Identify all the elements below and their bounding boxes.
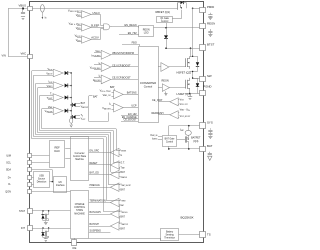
svg-text:VBATOVP: VBATOVP — [81, 106, 89, 109]
svg-text:BAT: BAT — [207, 144, 213, 148]
svg-text:BAT Gate: BAT Gate — [165, 138, 175, 141]
pin VAC — [28, 55, 33, 59]
svg-text:LSFET (Q3): LSFET (Q3) — [177, 92, 191, 96]
amp BATSNS — [112, 89, 124, 99]
wire VINDPM out — [111, 54, 138, 56]
transistor INT open-drain — [41, 228, 48, 242]
pin ILIM — [28, 154, 32, 158]
label BAT node — [110, 86, 115, 89]
amp VINDPM — [94, 50, 111, 59]
svg-text:Machine: Machine — [75, 159, 84, 161]
pin REGN — [200, 24, 206, 29]
label STAT — [19, 210, 25, 213]
wire BATLOWV — [89, 214, 111, 216]
comparator TERMINATION input labels — [120, 199, 126, 207]
comparator UVLO — [82, 11, 92, 18]
pin D- — [28, 183, 32, 187]
svg-text:REF: REF — [54, 146, 60, 150]
capacitor C_REGN — [208, 29, 212, 33]
wire TERMINATION input stubs — [119, 201, 120, 205]
battery symbol — [208, 156, 212, 160]
block USB Source Detection — [34, 172, 50, 188]
wire RESET input stubs — [119, 163, 120, 168]
wire BATOVP input stubs — [119, 224, 120, 229]
comparator UVLO input labels — [68, 10, 81, 18]
svg-text:VBUS: VBUS — [48, 68, 53, 71]
label OCP out — [112, 77, 131, 80]
label BATLOW out — [131, 105, 137, 108]
svg-text:EN_HIZ: EN_HIZ — [128, 32, 137, 35]
comparator fault 3 input labels — [47, 93, 53, 101]
label diode A nets — [81, 102, 89, 109]
svg-text:VSW: VSW — [180, 98, 185, 101]
label REGN — [207, 21, 215, 25]
label VBUS — [19, 4, 27, 8]
wire BAT sense routing — [89, 96, 109, 122]
comparator fault 4 input labels — [45, 106, 53, 114]
svg-text:VBUS: VBUS — [76, 39, 81, 42]
svg-text:IBAT: IBAT — [180, 129, 184, 132]
svg-text:BATLOWV: BATLOWV — [90, 211, 102, 214]
svg-text:Q1 Gate: Q1 Gate — [160, 17, 169, 20]
svg-text:IB: IB — [99, 62, 101, 65]
ground PGND internal — [188, 94, 192, 100]
svg-text:VHOT: VHOT — [81, 118, 86, 121]
svg-text:LDO: LDO — [144, 32, 149, 35]
svg-text:VBATOVP: VBATOVP — [45, 110, 53, 113]
svg-text:Thermistor: Thermistor — [164, 237, 175, 240]
label LSFET (Q3) — [177, 92, 191, 96]
wire EN stack labels — [122, 113, 137, 122]
wire FBO — [122, 44, 140, 46]
current source IBAT sense — [185, 126, 191, 137]
svg-text:Battery: Battery — [166, 230, 174, 233]
label D- — [8, 183, 11, 186]
wire UVLO out — [91, 14, 104, 25]
svg-text:Source: Source — [38, 178, 46, 181]
label CE — [72, 246, 77, 250]
pin TS — [200, 232, 206, 238]
wire fault 1 inputs — [32, 71, 53, 76]
svg-text:ACOV: ACOV — [91, 35, 99, 39]
svg-text:CE,OCP,BOOST: CE,OCP,BOOST — [112, 77, 131, 80]
label IBAT — [180, 129, 184, 132]
wire PGND — [185, 91, 201, 95]
wire SM to thermistor — [89, 238, 161, 241]
svg-text:ILIM: ILIM — [6, 155, 11, 158]
block REF DAC — [50, 141, 65, 168]
comparator EN_SRC input labels — [120, 149, 126, 157]
body diode Q2 — [190, 56, 199, 71]
svg-text:IINLIM_REG: IINLIM_REG — [92, 54, 102, 57]
svg-text:STATE: STATE — [76, 209, 83, 212]
wire EN_SRC input stubs — [119, 151, 120, 155]
comparator EN_SRC — [110, 148, 119, 156]
comparator fault 4 — [53, 107, 63, 115]
svg-text:IBATSC: IBATSC — [152, 137, 158, 140]
transistor RBFET Q1 — [178, 3, 183, 10]
comparator BATLOWV input labels — [120, 211, 128, 219]
pin SCL — [28, 161, 32, 165]
amp UCP — [94, 63, 111, 72]
label BATSNS out — [127, 91, 137, 94]
comparator BAT_GD — [110, 170, 119, 178]
svg-text:CHARGE: CHARGE — [75, 203, 85, 206]
svg-text:VBAT_SHORT: VBAT_SHORT — [120, 184, 131, 187]
comparator PRECHG — [110, 183, 119, 191]
svg-text:Control: Control — [144, 85, 153, 89]
comparator SLEEP input labels — [69, 23, 81, 31]
comparator BATLOWV — [110, 210, 119, 218]
label SCL — [6, 162, 11, 165]
transistor STAT open-drain — [41, 211, 48, 225]
diode OR 2 — [65, 84, 72, 88]
comparator BATOVP input labels — [120, 223, 128, 231]
junction dot VBUS decoupling — [22, 7, 24, 12]
wire BATLOWV input stubs — [119, 212, 120, 217]
wire vertical routing bundle — [32, 71, 42, 139]
svg-text:PMID: PMID — [207, 5, 214, 9]
svg-text:VACOV: VACOV — [46, 72, 52, 75]
label RESET — [90, 162, 98, 165]
svg-text:VSW_OCP: VSW_OCP — [180, 103, 188, 106]
label TS — [207, 232, 211, 236]
svg-text:REGN: REGN — [162, 79, 169, 82]
wire fault 2 inputs — [36, 84, 53, 88]
svg-text:BAT_GD: BAT_GD — [90, 171, 100, 174]
label VIN external — [2, 53, 6, 57]
diode OR extra A — [70, 103, 80, 107]
wire QON — [32, 191, 71, 193]
comparator ACOV input labels — [75, 35, 81, 43]
wire STAT — [32, 210, 70, 211]
wire EN_HIZ — [119, 34, 139, 36]
box Q1 gate control — [157, 17, 173, 24]
svg-text:CE_OCP: CE_OCP — [152, 99, 163, 102]
svg-text:TERMINATION: TERMINATION — [90, 199, 106, 202]
svg-text:DAC: DAC — [54, 149, 60, 153]
wire HS gate — [169, 48, 191, 66]
label PRECHG — [90, 184, 100, 187]
label IBUS — [45, 15, 47, 19]
label PMID — [207, 5, 214, 9]
wire REF DAC to CSM — [65, 149, 70, 159]
comparator RESET — [110, 161, 119, 169]
pin VBUS — [28, 7, 33, 11]
transistor LSFET Q3 — [186, 78, 190, 91]
pin BTST — [200, 45, 206, 51]
svg-text:BATOVP: BATOVP — [90, 223, 100, 226]
amp BATLOW — [112, 103, 124, 112]
diode OR 4 — [65, 109, 72, 113]
pin PMID — [200, 8, 206, 13]
label RBFET (Q1) — [156, 10, 171, 14]
body diode Q1 — [180, 1, 186, 8]
pin BAT — [200, 147, 206, 152]
svg-text:FBO: FBO — [132, 41, 137, 44]
label VAC — [21, 52, 26, 56]
svg-text:CONTROL: CONTROL — [74, 207, 86, 209]
comparator TERMINATION — [110, 198, 119, 206]
wire D- — [32, 184, 34, 186]
wire VBUS to RBFET — [32, 8, 177, 10]
capacitor C_VBUS — [21, 13, 25, 14]
label BAT_GD — [90, 171, 100, 174]
ground C_PMID — [208, 16, 212, 20]
comparator ACOV — [82, 36, 92, 43]
svg-text:/CE: /CE — [72, 246, 77, 250]
svg-text:VPH + VSLP: VPH + VSLP — [100, 90, 111, 94]
svg-text:VIN: VIN — [2, 53, 6, 57]
label ACOV — [91, 35, 99, 39]
comparator BATOVP — [110, 222, 119, 230]
pin PGND — [200, 91, 206, 96]
wire SLEEP out — [91, 27, 104, 29]
wire routing bundle horizontals — [32, 129, 120, 212]
wire SDA — [32, 170, 53, 182]
svg-text:SLEEP: SLEEP — [91, 23, 100, 27]
svg-text:CONVERTER: CONVERTER — [140, 81, 156, 85]
label CE_OCP — [152, 99, 163, 102]
svg-text:I2C: I2C — [59, 182, 63, 184]
svg-text:BTST: BTST — [207, 43, 215, 47]
pin QON — [28, 190, 32, 194]
svg-text:IB: IB — [120, 154, 122, 157]
wire OR bus — [71, 73, 73, 118]
wire EN stack — [121, 116, 138, 122]
svg-text:PRECHG: PRECHG — [90, 184, 100, 187]
svg-text:BAT: BAT — [110, 86, 115, 89]
diode OR extra B — [70, 115, 80, 119]
wire ACOV inputs — [77, 38, 82, 42]
svg-text:Control: Control — [166, 141, 174, 144]
amp OCP input labels — [93, 75, 101, 83]
wire PMID — [193, 8, 201, 10]
wire TS — [179, 234, 200, 236]
amp BATSNS input labels — [100, 90, 111, 98]
capacitor C_PMID — [208, 13, 212, 17]
comparator CE_OCP input labels — [178, 98, 188, 106]
svg-text:PGND: PGND — [203, 84, 211, 88]
label TERMINATION — [90, 199, 106, 202]
svg-text:VBAT - VPH: VBAT - VPH — [180, 108, 190, 112]
svg-text:STAT: STAT — [19, 210, 25, 213]
ground C_SYS — [208, 135, 212, 139]
svg-text:BAT: BAT — [93, 96, 98, 99]
pin INT — [28, 226, 33, 231]
svg-text:IBAT: IBAT — [120, 204, 124, 207]
diode OR 1 — [65, 71, 72, 75]
label EN_SRC — [90, 149, 100, 152]
svg-text:REGN: REGN — [207, 21, 215, 25]
wire Q2 drain bus — [192, 8, 193, 57]
wire SCL — [32, 162, 50, 164]
wire REGN to Q1 box — [166, 23, 168, 28]
svg-text:TS: TS — [207, 232, 211, 236]
current source IBUS — [41, 5, 45, 20]
label BAT — [207, 144, 213, 148]
label INT — [21, 227, 26, 230]
svg-text:RBFET (Q1): RBFET (Q1) — [156, 10, 171, 14]
pin STAT — [28, 209, 33, 214]
svg-text:BAT: BAT — [120, 189, 125, 192]
wire BTST — [165, 47, 200, 49]
svg-text:VBATGD: VBATGD — [120, 176, 128, 179]
label BTST — [207, 43, 215, 47]
transistor BATFET Q4 — [177, 136, 189, 149]
comparator fault 1 — [53, 69, 63, 77]
comparator fault 1 input labels — [46, 68, 52, 76]
svg-text:D-: D- — [8, 183, 11, 186]
svg-text:EN_REGN: EN_REGN — [125, 24, 137, 27]
wire LS gate — [170, 87, 186, 89]
svg-text:BAT: BAT — [120, 171, 125, 174]
label HSFET (Q2) — [177, 71, 192, 75]
svg-text:Converter: Converter — [75, 152, 85, 155]
wire INT — [32, 227, 70, 228]
svg-text:INT: INT — [21, 227, 26, 230]
diode REGN to BTST — [164, 28, 168, 48]
wire fault 3 inputs — [40, 96, 53, 100]
svg-text:ISENSE: ISENSE — [120, 149, 126, 152]
block Converter Control — [139, 47, 159, 123]
svg-text:Interface: Interface — [56, 184, 66, 187]
amp BATLOW input labels — [102, 103, 111, 111]
svg-text:SDA: SDA — [6, 169, 11, 172]
wire PRECHG input stubs — [119, 185, 120, 190]
label VBATGD ISHORT — [150, 134, 158, 141]
wire BATSNS out — [123, 94, 138, 96]
transistor HSFET Q2 — [186, 56, 190, 69]
wire CE — [74, 238, 76, 240]
svg-text:MACHINE: MACHINE — [74, 212, 85, 215]
svg-text:QON: QON — [5, 191, 11, 194]
svg-text:VAC: VAC — [21, 52, 26, 56]
wire REGN out — [154, 26, 201, 28]
svg-text:HSFET (Q2): HSFET (Q2) — [177, 71, 192, 75]
svg-text:BAT: BAT — [120, 227, 125, 230]
label REGN driver — [162, 79, 169, 82]
comparator fault 3 — [53, 94, 63, 102]
wire Q1 gate — [172, 10, 181, 19]
amp OCP — [94, 75, 111, 84]
svg-text:VSYS_BOOST: VSYS_BOOST — [180, 115, 191, 118]
pin SDA — [28, 168, 32, 172]
ground C_REGN — [208, 33, 212, 37]
IC boundary box BQ2560X — [30, 2, 204, 243]
svg-text:REFRESH: REFRESH — [152, 112, 164, 115]
label EN_HIZ — [128, 32, 137, 35]
label BQ2560X — [180, 216, 193, 220]
label SDA — [6, 169, 11, 172]
label BATFET (Q4) — [191, 137, 201, 143]
label ILIM — [6, 155, 11, 158]
label UVLO — [93, 11, 100, 15]
wire SLEEP inputs — [77, 26, 82, 30]
wire USB to I2C — [50, 181, 54, 182]
label FBO — [132, 41, 137, 44]
svg-text:SUSPEND: SUSPEND — [90, 230, 102, 233]
current source bias inline — [70, 118, 73, 127]
wire EN_SRC — [89, 152, 111, 154]
wire BATOVP — [89, 226, 111, 228]
comparator BAT_GD input labels — [120, 171, 128, 179]
box REGN LDO — [139, 26, 154, 37]
driver LSFET — [158, 84, 170, 96]
svg-text:VRECHG: VRECHG — [120, 211, 128, 214]
label SUSPEND — [90, 230, 102, 233]
svg-text:Detection: Detection — [37, 181, 47, 184]
wire BAT_GD input stubs — [119, 173, 120, 177]
label QON — [5, 191, 11, 194]
svg-text:(Q4): (Q4) — [193, 140, 198, 143]
wire SYS — [169, 125, 201, 136]
pin SW — [200, 77, 206, 82]
wire fault 4 inputs — [42, 109, 53, 113]
svg-text:USB: USB — [39, 176, 44, 178]
wire UVLO inputs — [77, 13, 82, 17]
wire OCP out — [111, 79, 138, 81]
wire bat gate inputs — [158, 137, 162, 140]
comparator PRECHG input labels — [120, 184, 131, 192]
svg-text:SYS: SYS — [207, 120, 213, 124]
svg-text:SW: SW — [207, 74, 212, 78]
wire ACOV out — [91, 29, 104, 40]
wire EN_REGN — [112, 27, 139, 28]
svg-text:VBATOVP: VBATOVP — [120, 223, 128, 226]
wire ILIM — [32, 155, 50, 157]
capacitor C_BAT — [208, 152, 212, 155]
amp UCP input labels — [90, 62, 101, 70]
svg-text:IB: IB — [109, 103, 111, 106]
svg-text:BQ2560X: BQ2560X — [180, 216, 193, 220]
svg-text:CE_BOOST: CE_BOOST — [124, 119, 137, 122]
comparator REFRESH — [158, 111, 178, 119]
ground C_VBUS — [21, 17, 25, 20]
svg-text:ITERM: ITERM — [120, 199, 126, 202]
comparator fault 2 input labels — [47, 81, 53, 89]
wire UCP out — [111, 66, 138, 68]
svg-text:Control State: Control State — [73, 155, 87, 158]
comparator REFRESH input labels — [178, 108, 190, 118]
block I2C Interface — [54, 177, 67, 193]
gate AND enable — [104, 24, 112, 30]
comparator fault 2 — [53, 82, 63, 90]
junction dot PMID node — [192, 8, 194, 10]
block Converter Control State Machine — [71, 137, 89, 181]
box BAT gate control — [163, 136, 177, 147]
label SW — [207, 74, 212, 78]
label VINDPM out — [112, 52, 134, 55]
driver HSFET — [158, 63, 169, 72]
pin CE — [72, 240, 77, 246]
comparator CE_OCP — [158, 98, 178, 106]
svg-text:RESET: RESET — [90, 162, 98, 165]
wire BAT rail — [168, 146, 201, 150]
label UCP out — [112, 64, 131, 67]
label SLEEP — [91, 23, 100, 27]
svg-text:SCL: SCL — [6, 162, 11, 165]
label SYS — [207, 120, 213, 124]
wire SW node — [192, 71, 200, 79]
svg-text:Sensing: Sensing — [166, 234, 175, 236]
label diode B nets — [81, 114, 86, 121]
wire SUSPEND — [89, 232, 111, 234]
capacitor C_SYS — [208, 128, 212, 134]
amp VINDPM input labels — [92, 50, 102, 58]
svg-text:VBAT_CLP: VBAT_CLP — [103, 94, 111, 97]
comparator RESET input labels — [120, 162, 125, 170]
